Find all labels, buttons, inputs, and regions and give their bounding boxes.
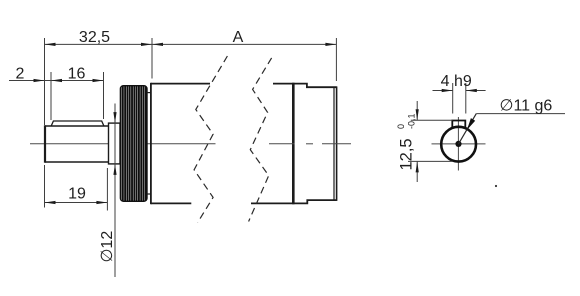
arrow 12,5 top (416, 109, 419, 120)
body top edge left (151, 83, 210, 85)
leader diagonal (459, 114, 477, 144)
body section line (292, 83, 295, 204)
centerline right segment 2 (306, 143, 313, 145)
dimension line 4 h9 right tail (466, 90, 486, 92)
svg-text:∅11 g6: ∅11 g6 (500, 98, 553, 115)
dimension line 16 (51, 80, 104, 82)
svg-text:A: A (233, 29, 244, 46)
front view crosshair vertical (457, 117, 459, 171)
svg-text:2: 2 (16, 65, 25, 82)
extension 12,5 bottom (408, 160, 453, 162)
svg-text:0: 0 (396, 124, 406, 129)
arrow Ø12 bottom (113, 164, 116, 175)
dimension 19 extension right (106, 168, 108, 211)
arrow 32,5 right (141, 43, 152, 46)
shaft flat (51, 121, 104, 126)
svg-text:19: 19 (68, 186, 86, 203)
break line 1 (194, 56, 227, 223)
shaft end face (44, 125, 46, 162)
ledge bottom (147, 193, 151, 195)
svg-text:4 h9: 4 h9 (441, 73, 472, 90)
break line 2 (249, 58, 272, 222)
arrow 4 h9 right (466, 89, 477, 92)
svg-text:∅12: ∅12 (99, 231, 116, 263)
ledge top (147, 92, 151, 94)
arrow 16 left (51, 79, 62, 82)
arrow Ø12 top (113, 112, 116, 123)
collar (109, 123, 121, 164)
arrow 2 (34, 79, 45, 82)
shaft (45, 126, 109, 162)
svg-text:16: 16 (68, 65, 86, 82)
arrow 32,5 left (45, 43, 56, 46)
dimension line 19 (45, 202, 108, 204)
dimension A extension right (335, 38, 337, 81)
body top edge right (273, 83, 294, 85)
dimension 2 tail (9, 80, 51, 82)
arrow 12,5 bottom (416, 161, 419, 172)
body bottom edge left (151, 202, 191, 204)
dimension Ø12 leader line (114, 104, 116, 278)
arrow A right (325, 43, 336, 46)
arrow A left (152, 43, 163, 46)
arrow 4 h9 left (442, 89, 453, 92)
shaft circle (441, 127, 476, 162)
threaded bushing (ribbed block) (120, 86, 147, 202)
stray dot (495, 185, 497, 187)
dimension 16 extension right (103, 72, 105, 119)
dimension 4 h9 extension left (452, 83, 454, 114)
extension 12,5 top (411, 119, 453, 121)
dimension 32,5 extension left (44, 38, 46, 125)
dimension line A (152, 43, 336, 45)
dimension 4 h9 extension right (465, 83, 467, 114)
svg-text:12,5: 12,5 (397, 138, 415, 170)
leader arrowhead (467, 118, 475, 130)
centerline left (30, 143, 216, 145)
dimension 12,5 line bottom (416, 161, 418, 182)
centerline right segment 3 (322, 143, 351, 145)
front view crosshair horizontal (432, 143, 486, 145)
rear housing top (293, 84, 336, 88)
body bottom edge right (251, 202, 294, 204)
dimension line 4 h9 left tail (433, 90, 453, 92)
centerline right segment 1 (269, 143, 295, 145)
dimension line 32,5 (45, 43, 153, 45)
dimension 19 extension left (44, 165, 46, 208)
svg-text:32,5: 32,5 (79, 29, 110, 46)
rear cap inner line (333, 87, 335, 200)
arrow 19 right (96, 201, 107, 204)
rear housing bottom (293, 200, 336, 203)
flat tab (452, 121, 465, 128)
arrow 19 left (45, 201, 56, 204)
leader underline (476, 113, 565, 115)
body front face (150, 83, 152, 204)
center dot (455, 141, 461, 147)
dimension 16 extension left (50, 72, 52, 120)
svg-text:-0,1: -0,1 (407, 113, 417, 129)
rear cap outer line (336, 86, 338, 200)
arrow 16 right (93, 79, 104, 82)
dimension 12,5 line top (416, 101, 418, 120)
dimension 32,5 / A shared extension (151, 38, 153, 79)
